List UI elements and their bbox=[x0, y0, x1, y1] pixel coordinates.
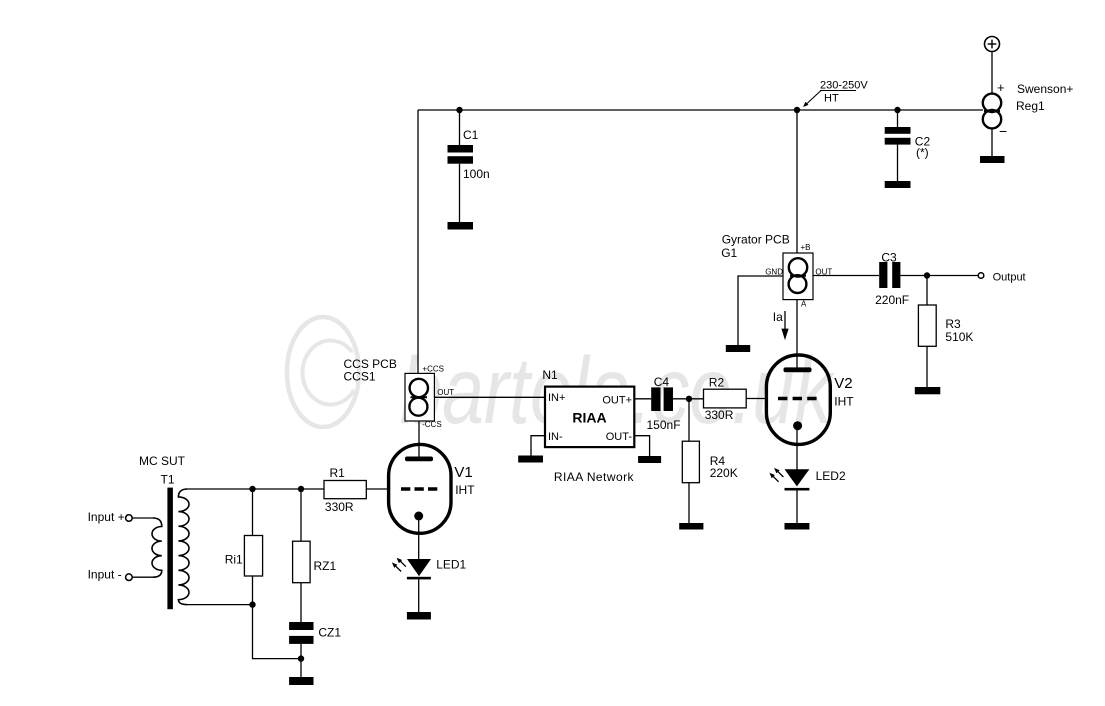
gyrator PCB G1 bbox=[783, 253, 813, 300]
ground RIAA IN- bbox=[518, 456, 543, 463]
transformer T1 secondary winding bbox=[178, 489, 189, 605]
resistor R1 bbox=[324, 481, 366, 499]
svg-text:OUT-: OUT- bbox=[606, 431, 633, 443]
svg-text:330R: 330R bbox=[325, 500, 354, 514]
Ia arrow bbox=[781, 311, 788, 340]
wire HT rail bbox=[418, 109, 983, 111]
ground gyrator bbox=[726, 345, 750, 352]
transformer T1 primary winding bbox=[152, 518, 162, 577]
wire gyrator A drop bbox=[796, 300, 798, 368]
svg-text:230-250V: 230-250V bbox=[820, 80, 868, 92]
wire Ri1 bottom lead bbox=[252, 576, 254, 605]
svg-text:V1: V1 bbox=[454, 464, 472, 481]
wire V1 grid row (transformer top wire) bbox=[186, 488, 324, 490]
ground LED1 bbox=[407, 612, 431, 620]
resistor Ri1 bbox=[244, 536, 262, 577]
wire CCS to V1 anode bbox=[418, 421, 420, 458]
HT leader underline bbox=[820, 90, 856, 92]
capacitor C4 bbox=[651, 387, 673, 411]
svg-text:GND: GND bbox=[765, 267, 783, 276]
CCS PCB CCS1 bbox=[405, 373, 434, 421]
resistor R3 bbox=[918, 305, 936, 346]
capacitor C1 bbox=[448, 145, 474, 164]
wire R3 bottom lead bbox=[926, 346, 928, 387]
node Ri1 top bbox=[249, 486, 255, 492]
svg-text:LED2: LED2 bbox=[816, 469, 846, 483]
node ground junction bbox=[298, 655, 304, 661]
wire input + lead bbox=[132, 517, 153, 519]
svg-text:220nF: 220nF bbox=[875, 293, 909, 307]
ground R4 bbox=[679, 523, 703, 530]
capacitor C2 bbox=[885, 127, 911, 145]
wire Ri1 top lead bbox=[252, 489, 254, 536]
svg-text:RIAA: RIAA bbox=[572, 410, 606, 426]
node HT/gyrator junction bbox=[794, 107, 800, 113]
svg-text:LED1: LED1 bbox=[436, 558, 466, 572]
svg-text:Swenson+: Swenson+ bbox=[1017, 82, 1073, 96]
node R4 junction bbox=[686, 396, 692, 402]
LED2 bbox=[769, 468, 809, 491]
wire gyrator GND lead bbox=[738, 276, 783, 346]
svg-text:RIAA Network: RIAA Network bbox=[554, 470, 635, 484]
wire RIAA OUT- ground lead bbox=[635, 436, 650, 457]
ground C1 bbox=[448, 222, 474, 230]
wire V2 grid lead bbox=[746, 398, 766, 400]
triode V1 bbox=[389, 444, 451, 533]
svg-text:(*): (*) bbox=[916, 146, 929, 160]
ground C2 bbox=[885, 181, 911, 188]
input + terminal bbox=[126, 515, 133, 522]
svg-text:Ia: Ia bbox=[773, 310, 783, 324]
wire RZ1 top lead bbox=[300, 489, 302, 541]
svg-text:HT: HT bbox=[824, 93, 839, 105]
svg-text:Output: Output bbox=[993, 271, 1026, 283]
resistor R2 bbox=[704, 389, 747, 408]
svg-text:G1: G1 bbox=[721, 246, 737, 260]
svg-text:220K: 220K bbox=[710, 466, 738, 480]
node Ri1 bottom bbox=[249, 601, 255, 607]
wire gyrator OUT lead bbox=[813, 275, 879, 277]
svg-text:+: + bbox=[997, 80, 1005, 95]
wire C2 bottom lead bbox=[897, 145, 899, 182]
svg-text:510K: 510K bbox=[945, 330, 973, 344]
svg-text:150nF: 150nF bbox=[647, 418, 681, 432]
wire LED1 bottom lead bbox=[418, 579, 420, 612]
wire regulator top lead bbox=[991, 52, 993, 93]
node HT/C2 junction bbox=[894, 107, 900, 113]
node RZ1 top bbox=[298, 486, 304, 492]
wire V2 cathode drop bbox=[796, 426, 798, 470]
resistor R4 bbox=[682, 441, 699, 483]
wire C1 top lead bbox=[459, 110, 461, 146]
resistor RZ1 bbox=[293, 541, 311, 583]
svg-text:C4: C4 bbox=[654, 375, 670, 389]
wire C3 to output node bbox=[900, 275, 927, 277]
wire V1 cathode drop bbox=[418, 516, 420, 560]
wire R4 bottom lead bbox=[688, 483, 690, 524]
regulator Reg1 (Swenson) bbox=[983, 94, 1001, 129]
wire regulator bottom lead bbox=[991, 130, 993, 157]
svg-text:IN-: IN- bbox=[548, 431, 563, 443]
input - terminal bbox=[126, 574, 133, 581]
node output junction bbox=[924, 272, 930, 278]
svg-text:CZ1: CZ1 bbox=[318, 626, 341, 640]
wire CZ1 bottom lead bbox=[300, 644, 302, 677]
svg-text:100n: 100n bbox=[463, 167, 490, 181]
wire C2 top lead bbox=[897, 110, 899, 128]
svg-text:Reg1: Reg1 bbox=[1016, 99, 1045, 113]
ground Reg1 bbox=[980, 156, 1005, 163]
wire C4 to R2 row bbox=[673, 398, 704, 400]
svg-text:Input +: Input + bbox=[88, 510, 125, 524]
svg-text:+CCS: +CCS bbox=[422, 364, 444, 373]
svg-text:Gyrator PCB: Gyrator PCB bbox=[722, 233, 790, 247]
svg-text:IHT: IHT bbox=[455, 483, 475, 497]
svg-text:N1: N1 bbox=[542, 368, 558, 382]
svg-text:Ri1: Ri1 bbox=[225, 553, 243, 567]
svg-text:CCS1: CCS1 bbox=[344, 370, 376, 384]
wire RIAA IN- ground lead bbox=[531, 436, 545, 456]
wire secondary bottom bbox=[186, 604, 253, 606]
power terminal + circle bbox=[985, 37, 1000, 52]
svg-text:330R: 330R bbox=[705, 408, 734, 422]
LED1 bbox=[392, 558, 431, 580]
HT leader arrow bbox=[803, 91, 821, 108]
watermark bbox=[287, 317, 836, 444]
svg-text:-CCS: -CCS bbox=[422, 420, 442, 429]
svg-text:V2: V2 bbox=[834, 375, 852, 392]
ground input stage bbox=[289, 677, 313, 685]
ground RIAA OUT- bbox=[638, 456, 661, 463]
wire LED2 bottom lead bbox=[796, 491, 798, 524]
svg-text:Input -: Input - bbox=[88, 568, 122, 582]
triode V2 bbox=[766, 355, 830, 444]
wire CCS OUT to RIAA IN+ bbox=[434, 396, 545, 398]
output terminal bbox=[978, 273, 984, 279]
svg-text:C1: C1 bbox=[463, 128, 479, 142]
svg-text:RZ1: RZ1 bbox=[314, 559, 337, 573]
svg-text:OUT+: OUT+ bbox=[602, 395, 632, 407]
capacitor C3 bbox=[879, 262, 900, 288]
ground R3 bbox=[915, 387, 941, 394]
svg-text:IHT: IHT bbox=[834, 395, 854, 409]
svg-text:A: A bbox=[801, 299, 807, 308]
wire R4 top lead bbox=[688, 399, 690, 441]
svg-text:R2: R2 bbox=[709, 376, 725, 390]
RIAA network N1 bbox=[545, 387, 634, 448]
wire bottom return bbox=[253, 605, 302, 659]
svg-text:R1: R1 bbox=[330, 466, 346, 480]
capacitor CZ1 bbox=[289, 622, 313, 644]
wire to output terminal bbox=[927, 275, 978, 277]
svg-text:MC SUT: MC SUT bbox=[139, 454, 186, 468]
node HT/C1 junction bbox=[456, 107, 462, 113]
wire C1 bottom lead bbox=[459, 164, 461, 223]
svg-text:T1: T1 bbox=[161, 473, 175, 487]
wire RIAA OUT+ lead bbox=[635, 398, 652, 400]
transformer T1 core bbox=[167, 488, 173, 610]
svg-text:IN+: IN+ bbox=[548, 392, 565, 404]
svg-text:−: − bbox=[999, 123, 1007, 139]
svg-text:C3: C3 bbox=[881, 250, 897, 264]
svg-text:OUT: OUT bbox=[437, 388, 454, 397]
wire input - lead bbox=[132, 576, 153, 578]
wire HT rail left drop to CCS bbox=[417, 110, 419, 374]
ground LED2 bbox=[785, 523, 810, 530]
wire R3 top lead bbox=[926, 276, 928, 306]
wire RZ1 bottom lead bbox=[300, 583, 302, 622]
svg-text:+B: +B bbox=[801, 243, 811, 252]
wire R1 to V1 grid bbox=[366, 488, 389, 490]
wire gyrator +B drop bbox=[796, 110, 798, 253]
